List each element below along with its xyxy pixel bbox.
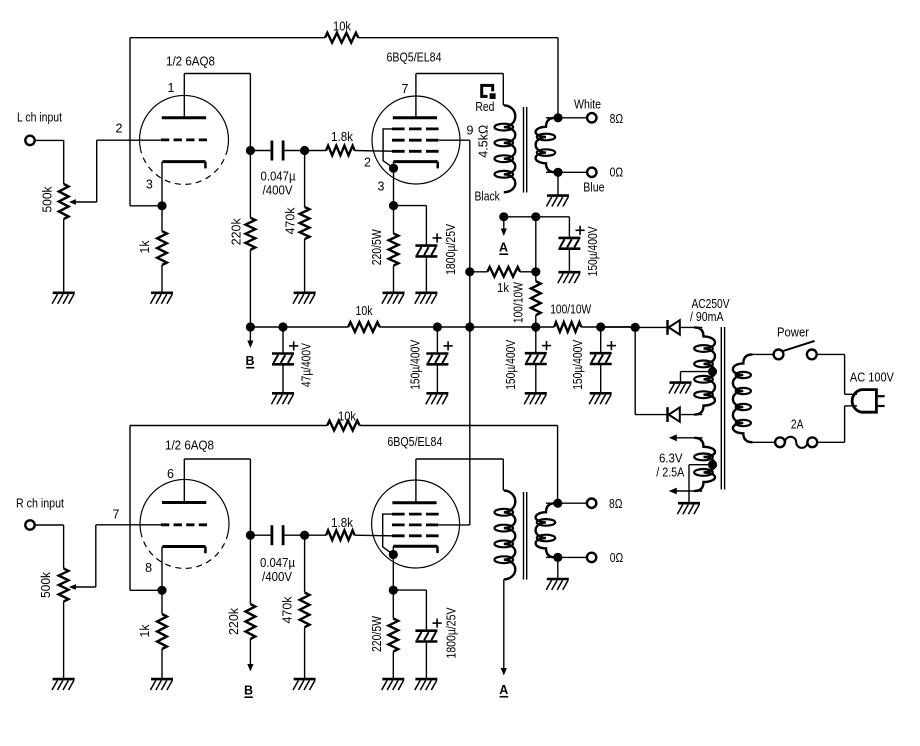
pin 2 label [116,122,123,136]
svg-text:A: A [499,241,508,255]
resistor 1.8k grid stopper L [305,130,392,155]
resistor 220k plate load L [229,151,255,328]
terminal 8ohm White [574,97,623,126]
V3 screen wire pin 9 [439,524,470,526]
ground (1k L) [150,293,173,304]
svg-text:/400V: /400V [263,184,294,198]
pin 3 label V2 [378,180,385,194]
svg-text:2: 2 [364,156,371,170]
V3 g3-cathode strap [383,514,394,554]
svg-text:470k: 470k [280,596,294,624]
svg-text:150µ/400V: 150µ/400V [586,226,600,277]
resistor 100/10W rail [550,303,591,332]
wire to 8ohm terminal R [558,502,587,504]
pin 6 label [167,467,174,481]
V1a plate [162,74,206,118]
terminal 0ohm Blue [583,166,623,195]
V1a grid [161,138,207,141]
node B rail left [246,322,255,331]
6.3V / 2.5A label [656,452,685,480]
capacitor 150u/400V (A) [558,217,600,277]
wire input to pot [35,140,64,184]
svg-text:220/5W: 220/5W [370,229,384,265]
Black label [475,189,501,203]
node 47u junction [278,322,287,331]
node K3 junction [157,586,166,595]
svg-text:B: B [244,684,253,698]
node A junction T1 [499,212,508,221]
wire T1 sec top [546,117,558,119]
capacitor 150u/400V (c) [571,327,616,392]
node screen line crossing rail [465,322,474,331]
V2 screen wire pin 9 [439,140,470,525]
terminal 0ohm R [587,551,623,565]
node A arrow R [499,579,508,697]
T1 core [524,107,527,193]
svg-text:8Ω: 8Ω [609,497,623,511]
AC 100V label [850,371,895,385]
pentode V2 6BQ5/EL84 envelope [372,96,460,184]
svg-text:8Ω: 8Ω [610,112,624,126]
wire plug to fuse [817,406,857,442]
svg-text:7: 7 [113,507,120,521]
svg-text:8: 8 [145,561,152,575]
capacitor 1800u/25V R [393,590,458,678]
V2 plate wire to OPT [416,74,503,106]
wire wiper to grid pin2 [97,140,161,202]
V1b cathode [162,547,205,591]
node K2b [389,201,398,210]
6.3V center tap [689,460,717,502]
heater lead top [669,434,703,441]
HV center tap [681,367,718,382]
node rectifier output [601,323,667,415]
wire to 0ohm terminal [558,171,587,173]
V2 grid3 [392,127,439,130]
ground (R pot) [52,679,75,690]
V2 grid2 screen [392,139,439,142]
ground (150u a) [426,393,449,404]
pin 7 label [402,82,409,96]
resistor 220/5W cathode V3 [370,590,398,678]
ground (150u A) [558,272,581,283]
svg-text:2: 2 [116,122,123,136]
svg-text:1k: 1k [138,240,152,254]
node 8ohm junction R [553,499,562,508]
resistor 100/10W vertical [512,272,541,327]
AC plug [852,390,884,413]
svg-text:1.8k: 1.8k [331,130,354,144]
node 0ohm junction R [553,553,562,562]
svg-text:1k: 1k [138,624,152,638]
wire to 8ohm terminal [558,117,587,119]
T1 secondary winding [536,118,556,173]
resistor 220k plate load R [227,535,255,639]
diode D1 [635,320,702,335]
V3 plate wire to OPT [416,459,503,491]
svg-text:2A: 2A [791,417,804,431]
svg-text:0Ω: 0Ω [610,551,624,565]
node K4b [389,586,398,595]
T2 6.3V winding [694,438,715,491]
node 1k right [531,267,540,276]
ground (150u b) [524,393,547,404]
node K2 [389,164,398,206]
svg-text:500k: 500k [39,571,53,598]
wire switch to plug [817,354,857,394]
node B arrow R [244,639,254,698]
wire to 0ohm terminal R [558,556,587,558]
pentode V3 6BQ5/EL84 envelope [372,480,460,568]
V1b label [165,439,214,453]
T2 core [721,327,724,490]
svg-text:47µ/400V: 47µ/400V [300,343,314,388]
svg-text:220k: 220k [229,218,243,246]
node 150u-c junction [596,322,605,331]
L channel input jack [17,111,62,146]
svg-text:1/2 6AQ8: 1/2 6AQ8 [166,55,215,69]
plate wire to coupling node [184,74,250,151]
svg-text:4.5kΩ: 4.5kΩ [477,125,491,158]
V1b plate [162,459,206,503]
svg-text:150µ/400V: 150µ/400V [571,339,585,390]
T2 primary winding [733,354,753,442]
V3 grid2 screen [392,524,439,527]
V2 label [387,51,442,65]
svg-text:1800µ/25V: 1800µ/25V [445,607,459,659]
ground (47u) [271,393,294,404]
capacitor 47u/400V [272,327,314,392]
wire pot to ground R [63,602,65,679]
ground (1800u L) [415,293,438,304]
svg-text:Black: Black [475,189,501,203]
svg-text:B: B [245,354,254,368]
resistor 1k screen feed [470,267,536,295]
svg-text:100/10W: 100/10W [550,303,591,317]
triode V1a 1/2 6AQ8 envelope [140,95,229,184]
capacitor 150u/400V (b) [504,327,551,392]
node 1k left on screen line [465,267,474,276]
potentiometer VR2 500k [39,569,68,602]
node 8ohm junction [553,113,562,122]
wire node A row [504,216,570,218]
resistor 470k grid leak R [280,535,309,678]
wire T3 sec bottom [546,556,558,558]
svg-text:Power: Power [777,325,809,339]
ground (HV center tap) [669,383,692,394]
ground (L pot) [52,293,75,304]
svg-text:L ch input: L ch input [17,111,62,125]
svg-text:1800µ/25V: 1800µ/25V [444,223,458,275]
svg-text:Blue: Blue [583,181,604,195]
wire primary to switch [753,353,774,355]
feedback wire bottom [130,426,558,591]
diode D2 [668,407,703,422]
svg-text:6: 6 [167,467,174,481]
pin 7 label R [113,507,120,521]
svg-text:10k: 10k [356,304,374,318]
T3 core [524,492,527,580]
svg-text:3: 3 [378,180,385,194]
V3 label [387,435,442,449]
svg-text:1: 1 [168,81,175,95]
node G2in R [300,531,309,540]
ground (150u c) [589,393,612,404]
potentiometer VR1 500k [41,184,69,219]
V1a cathode [162,162,205,206]
ground (470k R) [293,679,316,690]
V2 grid1 [392,150,439,153]
ground (T3 secondary) [546,557,569,590]
V2 g3-cathode strap [383,129,393,168]
feedback wire top [130,38,558,206]
wire input to pot R [35,525,64,569]
node 150u-a junction [433,322,442,331]
svg-text:100/10W: 100/10W [512,282,526,323]
svg-text:0.047µ: 0.047µ [260,556,295,570]
B+ rail wire [250,326,635,328]
heater lead bottom [669,488,703,495]
resistor 220/5W cathode V2 [370,206,398,292]
node 0ohm junction [553,168,562,177]
svg-text:6.3V: 6.3V [659,452,683,466]
ground (T1 secondary) [546,172,569,206]
ground (1800u R) [415,679,438,690]
svg-text:AC 100V: AC 100V [850,371,895,385]
svg-text:White: White [574,97,601,111]
wire T1 sec bottom [546,171,558,173]
svg-text:10k: 10k [338,410,357,424]
svg-text:AC250V: AC250V [692,297,731,311]
svg-text:9: 9 [467,124,474,138]
svg-text:/400V: /400V [262,570,293,584]
resistor 1k cathode L [138,206,167,292]
R channel input jack [16,496,64,529]
svg-text:470k: 470k [284,207,298,235]
capacitor 1800u/25V L [394,206,458,292]
Red label [475,100,494,114]
wire pot to ground [63,219,65,292]
svg-text:6BQ5/EL84: 6BQ5/EL84 [387,435,442,449]
node K1 junction [157,201,166,210]
ground (470k L) [293,293,316,304]
triode V1b 1/2 6AQ8 envelope [140,479,229,568]
V2 plate [393,74,437,118]
wire A2 down [535,217,537,272]
pin 8 label [145,561,152,575]
node 150u-b junction [531,322,540,331]
T1 primary winding 4.5k [495,105,516,192]
ground (1k R) [150,679,173,690]
svg-text:500k: 500k [41,186,55,213]
svg-text:220/5W: 220/5W [370,616,384,652]
svg-text:220k: 220k [227,607,241,635]
node A2 [531,212,540,221]
svg-text:0.047µ: 0.047µ [261,169,296,183]
node G2in [300,146,309,155]
svg-text:/ 90mA: / 90mA [690,310,724,324]
wire fuse to primary [753,441,776,443]
node P1 [246,146,255,155]
ground (6.3V center tap) [677,503,700,514]
ground (220/5W R) [382,679,405,690]
svg-text:1k: 1k [497,281,510,295]
wire T3 sec top [546,502,558,504]
plate wire to coupling node R [184,459,250,535]
AC250V / 90mA label [690,297,730,324]
node P2 [246,531,255,540]
resistor 470k grid leak L [284,151,310,292]
V2 cathode [394,162,438,169]
svg-text:1.8k: 1.8k [331,516,354,530]
svg-text:A: A [499,683,508,697]
fuse 2A [775,417,817,448]
svg-text:10k: 10k [333,19,352,33]
V3 plate [392,459,436,503]
pin 9 label [467,124,474,138]
wire wiper to grid pin7 [96,525,161,587]
V3 cathode [393,546,437,554]
svg-text:6BQ5/EL84: 6BQ5/EL84 [387,51,442,65]
terminal 8ohm R [587,497,623,511]
4.5k ohm label [477,125,491,158]
transformer T1 red dot marker [482,85,496,99]
svg-text:Red: Red [475,100,494,114]
svg-text:7: 7 [402,82,409,96]
resistor 1.8k grid stopper R [305,516,392,540]
T3 secondary winding [536,503,556,557]
switch SW Power [774,325,817,359]
pin 3 label [146,178,153,192]
resistor 10k feedback L [325,19,358,42]
T2 HV secondary winding [694,327,715,414]
capacitor 150u/400V (a) [408,327,452,392]
V1b grid [161,523,207,526]
svg-text:/ 2.5A: / 2.5A [656,466,685,480]
node B arrow [245,327,254,368]
pin 1 label [168,81,175,95]
resistor 1k cathode R [138,590,167,678]
svg-text:0Ω: 0Ω [610,166,624,180]
resistor 10k rail dropper [348,304,380,332]
pot wiper arrow R [69,584,96,590]
capacitor 0.047u/400V L [250,141,304,198]
svg-text:3: 3 [146,178,153,192]
capacitor 0.047u/400V R [250,525,304,584]
resistor 10k feedback R [327,410,359,431]
svg-text:1/2 6AQ8: 1/2 6AQ8 [165,439,214,453]
pot wiper arrow [69,199,97,205]
svg-text:150µ/400V: 150µ/400V [504,339,518,390]
V1a label [166,55,215,69]
ground (220/5W L) [382,293,405,304]
svg-text:150µ/400V: 150µ/400V [408,339,422,390]
node A arrow [499,217,508,255]
node K4 [389,550,398,590]
svg-text:R ch input: R ch input [16,496,64,510]
V3 grid3 [392,513,439,516]
V3 grid1 [392,534,439,537]
pin 2 label V2 [364,156,371,170]
T3 primary winding [495,490,516,579]
